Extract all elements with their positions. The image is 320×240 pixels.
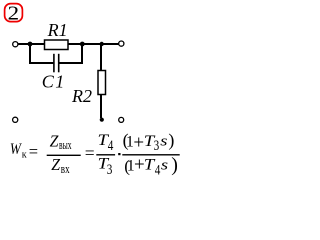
svg-text:3: 3 (154, 138, 160, 154)
svg-text:=: = (85, 143, 95, 163)
node B junction dot (80, 42, 85, 47)
svg-text:3: 3 (107, 162, 113, 178)
svg-text:Z: Z (51, 155, 61, 174)
resistor R2 box (98, 71, 106, 95)
svg-text:R1: R1 (47, 20, 68, 40)
formula: denominator (1+T4s) (124, 154, 178, 178)
svg-text:R2: R2 (71, 86, 92, 106)
svg-text:): ) (168, 130, 174, 151)
svg-text:4: 4 (108, 138, 114, 154)
formula: fraction bar 2 (96, 154, 115, 155)
svg-text:Z: Z (50, 132, 60, 151)
node A junction dot (28, 42, 33, 47)
svg-text:C1: C1 (42, 72, 65, 92)
capacitor C1 left plate (53, 54, 55, 73)
formula: numerator (1+T3s) (123, 130, 175, 154)
figure number badge (red rounded square) (5, 4, 23, 22)
wire: R1 right to output terminal (through nodes B and C) (68, 43, 118, 45)
svg-text:s: s (160, 133, 167, 149)
svg-text:4: 4 (155, 162, 161, 178)
terminal: input bottom (open circle) (13, 117, 18, 122)
wire: input terminal to R1 (through node A) (18, 43, 45, 45)
svg-text:=: = (29, 142, 38, 161)
svg-text:к: к (22, 149, 27, 160)
svg-text:s: s (161, 157, 168, 173)
wire: node C down to R2 (100, 45, 102, 71)
node C junction dot (100, 42, 104, 46)
svg-text:2: 2 (8, 2, 20, 24)
wire: node A down to C1 branch (30, 45, 53, 63)
svg-text:): ) (171, 154, 178, 176)
terminal: input top (open circle) (13, 42, 18, 47)
svg-text:+: + (133, 132, 144, 153)
resistor R1 box (45, 40, 69, 50)
svg-text:вх: вх (61, 161, 70, 176)
terminal: output bottom (open circle) (119, 117, 124, 122)
wire: R2 bottom lead (100, 95, 102, 119)
wire: C1 right plate to node B (59, 45, 82, 63)
capacitor C1 right plate (58, 54, 60, 73)
formula: multiplication dot (118, 153, 120, 155)
formula: fraction bar 3 (122, 154, 179, 155)
svg-text:вых: вых (59, 137, 72, 152)
formula: fraction bar 1 (47, 155, 81, 156)
terminal: output top (open circle) (119, 41, 124, 46)
bottom node dot (end of R2 lead) (100, 118, 104, 122)
